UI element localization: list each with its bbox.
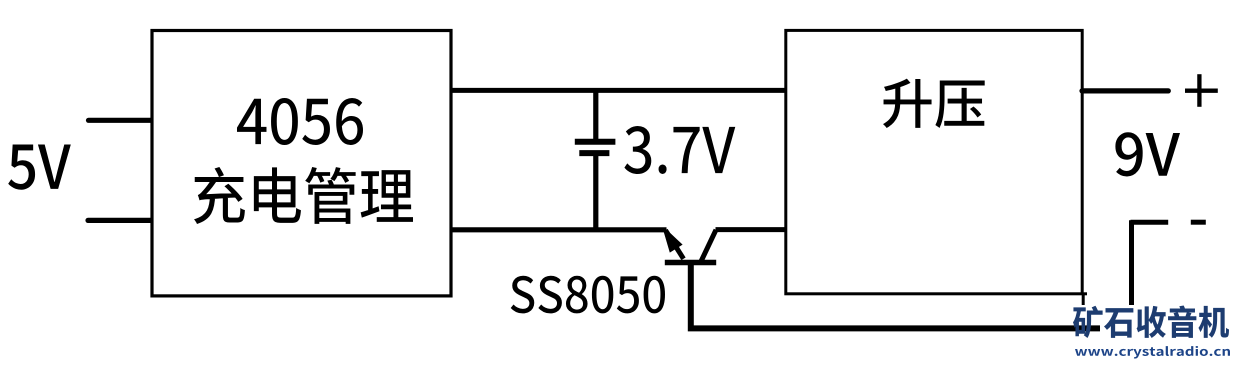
wire U2 to output plus [1082, 88, 1168, 93]
battery BT1 long plate [575, 139, 616, 145]
wire U1 to Q1 emitter [450, 227, 667, 232]
node 9V output label [1115, 132, 1180, 176]
output minus sign [1191, 220, 1206, 225]
output plus sign horizontal [1185, 89, 1218, 93]
wire top rail U1 to U2 (battery positive) [450, 88, 788, 93]
transistor Q1 collector diagonal [701, 230, 716, 261]
battery BT1 negative lead [593, 153, 598, 232]
block U1 4056 charge manager [152, 31, 451, 296]
transistor Q1 emitter arrow (NPN) [663, 229, 683, 253]
block U2 boost converter [786, 30, 1082, 293]
output plus sign vertical [1197, 74, 1201, 107]
wire output minus stub [1131, 220, 1169, 225]
label Q1 type SS8050 [511, 276, 665, 314]
watermark logo text [1073, 306, 1229, 339]
label U1 line2 charge management [194, 167, 413, 224]
label battery value 3.7V [624, 126, 735, 174]
wire Q1 base lead down and bottom rail to minus terminal [691, 263, 1100, 329]
transistor Q1 base bar [665, 260, 716, 266]
label U2 boost [883, 79, 985, 128]
wire 5V input lower stub [88, 218, 153, 223]
wire Q1 collector to U2 [716, 227, 788, 232]
label U1 line1 4056 [237, 98, 363, 145]
block U2 right edge overshoot [1082, 294, 1085, 305]
wire output minus down to bottom rail [1129, 220, 1134, 305]
battery BT1 positive lead [593, 90, 598, 144]
battery BT1 short plate [579, 150, 609, 156]
block U2 bottom edge overshoot [1082, 292, 1087, 295]
transistor Q1 emitter diagonal [666, 230, 684, 259]
watermark url [1075, 346, 1230, 359]
node 5V input label [8, 144, 71, 189]
wire 5V input upper stub [89, 118, 154, 123]
